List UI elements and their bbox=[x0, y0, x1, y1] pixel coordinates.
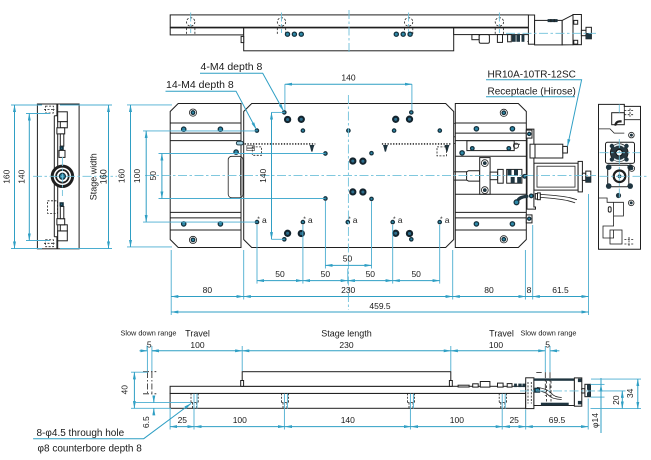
left side view bottom mechanism bbox=[48, 201, 68, 241]
svg-text:a: a bbox=[398, 215, 403, 225]
svg-text:100: 100 bbox=[233, 415, 247, 425]
plan left counterbore screws bbox=[189, 109, 196, 243]
right side view connector boss bbox=[612, 109, 634, 126]
left side view top mechanism bbox=[57, 112, 67, 158]
plan right block pocket bbox=[455, 156, 526, 194]
top view motor shaft bbox=[581, 30, 586, 35]
bottom view phantom stage bbox=[143, 372, 156, 394]
right side view top screw bbox=[629, 132, 635, 138]
plan a-hole star marks bbox=[257, 216, 443, 223]
dim 140 side view bbox=[17, 114, 51, 241]
right side view shaft flange bbox=[606, 164, 633, 189]
svg-text:Stage length: Stage length bbox=[321, 329, 372, 339]
svg-text:40: 40 bbox=[120, 385, 130, 395]
plan centerline horizontal bbox=[145, 175, 596, 177]
svg-text:100: 100 bbox=[450, 415, 464, 425]
plan sensor dotted strip right bbox=[382, 143, 451, 145]
plan right rail holes bbox=[474, 127, 514, 226]
right side view inner edge bbox=[624, 104, 640, 119]
svg-text:230: 230 bbox=[339, 340, 353, 350]
svg-text:6.5: 6.5 bbox=[141, 416, 151, 428]
top view base bar bbox=[170, 15, 529, 28]
right side view step profile bbox=[599, 129, 625, 133]
plan sensor left component bbox=[247, 146, 262, 156]
svg-text:80: 80 bbox=[203, 285, 213, 295]
top view right rail section bbox=[454, 28, 531, 44]
right side view fan circle bbox=[610, 144, 629, 162]
svg-text:20: 20 bbox=[611, 395, 621, 405]
plan left rail holes bbox=[182, 127, 223, 226]
dim 160 side view bbox=[2, 105, 43, 249]
bottom view sensor pieces bbox=[458, 382, 526, 388]
top view stage block bbox=[241, 28, 454, 51]
svg-text:160: 160 bbox=[117, 169, 127, 183]
svg-text:Slow down range: Slow down range bbox=[521, 329, 577, 338]
bottom view motor rear plate bbox=[574, 378, 581, 406]
plan right base block bbox=[455, 104, 526, 248]
top view left lip plate bbox=[170, 28, 244, 35]
left side view outer body bbox=[37, 104, 79, 249]
svg-text:Stage width: Stage width bbox=[89, 153, 99, 200]
plan lead screw shaft bbox=[454, 171, 480, 181]
right side view fan plate bbox=[606, 142, 635, 163]
svg-text:50: 50 bbox=[148, 171, 158, 181]
plan sensor dotted strip left bbox=[245, 143, 316, 145]
bottom view motor bracket bbox=[526, 378, 534, 409]
svg-text:a: a bbox=[445, 215, 450, 225]
bottom view mounting holes dashed bbox=[191, 393, 506, 408]
bottom view motor shaft bbox=[582, 389, 585, 393]
svg-text:50: 50 bbox=[321, 269, 331, 279]
svg-text:5: 5 bbox=[545, 340, 550, 350]
bottom view rail plate bbox=[170, 386, 526, 393]
top view hole dots bbox=[285, 32, 412, 36]
dim phi14 bbox=[590, 378, 605, 433]
svg-text:*: * bbox=[257, 216, 260, 223]
svg-text:50: 50 bbox=[343, 254, 353, 264]
svg-text:φ8 counterbore depth 8: φ8 counterbore depth 8 bbox=[38, 444, 143, 455]
bottom view motor centerline bbox=[520, 390, 600, 392]
plan bearing housing bbox=[480, 158, 490, 195]
right side view centerlines bbox=[600, 104, 649, 200]
top view knob bbox=[586, 27, 591, 39]
svg-text:140: 140 bbox=[258, 168, 268, 182]
dim row 80 230 80 8 61.5 bbox=[171, 194, 588, 315]
svg-text:Slow down range: Slow down range bbox=[121, 329, 177, 338]
leader 14-M4 bbox=[166, 79, 257, 129]
svg-text:8-φ4.5 through hole: 8-φ4.5 through hole bbox=[37, 428, 125, 439]
dim 34 bbox=[591, 379, 642, 409]
top view motor bracket bbox=[528, 15, 534, 44]
dim 50 center top bbox=[325, 201, 371, 269]
plan bracket tab bbox=[526, 130, 532, 223]
dim 40 bbox=[120, 372, 172, 408]
svg-text:5: 5 bbox=[147, 340, 152, 350]
dim stage width 160 bbox=[60, 105, 112, 249]
right side view lower screws bbox=[616, 166, 635, 206]
dim 100 plan bbox=[132, 131, 256, 222]
left side view bearing circles bbox=[52, 166, 72, 186]
right side view outline bbox=[599, 104, 641, 249]
svg-text:25: 25 bbox=[509, 415, 519, 425]
bottom view motor body bbox=[534, 378, 575, 405]
dim 140 plan vertical bbox=[258, 112, 284, 239]
right side view lower bracket bbox=[599, 198, 635, 246]
bottom view phantom right bbox=[536, 372, 550, 396]
svg-text:a: a bbox=[262, 215, 267, 225]
svg-text:160: 160 bbox=[98, 169, 108, 184]
plan motor body bbox=[534, 161, 582, 192]
top view motor centerline bbox=[506, 32, 596, 34]
top view motor taper bbox=[562, 15, 573, 45]
svg-text:100: 100 bbox=[132, 169, 142, 183]
plan stage edge ticks bbox=[454, 123, 456, 143]
plan stage corner M4 holes bbox=[283, 111, 413, 241]
bottom view knob bbox=[585, 384, 591, 396]
leader 4-M4 bbox=[200, 61, 284, 111]
left side view bottom dashed screw bbox=[44, 240, 55, 247]
dim 160 plan bbox=[117, 105, 173, 247]
dim 20 bbox=[600, 391, 626, 409]
top view dashed clamp screws bbox=[187, 18, 504, 35]
leader through hole bbox=[33, 404, 191, 455]
svg-text:50: 50 bbox=[366, 269, 376, 279]
svg-text:160: 160 bbox=[2, 169, 12, 183]
plan motor knob bbox=[586, 171, 591, 182]
plan motor mount plate bbox=[460, 141, 520, 155]
plan right counterbore screws bbox=[500, 109, 507, 243]
svg-text:*: * bbox=[393, 216, 396, 223]
plan stage counterbore holes bbox=[285, 117, 412, 236]
plan slot near left edge bbox=[234, 141, 243, 154]
plan sensor right components bbox=[383, 145, 450, 156]
svg-text:100: 100 bbox=[190, 340, 204, 350]
svg-text:φ14: φ14 bbox=[590, 413, 600, 428]
plan motor cable bbox=[514, 193, 577, 205]
svg-text:a: a bbox=[308, 215, 313, 225]
svg-text:140: 140 bbox=[341, 73, 355, 83]
plan a-hole labels bbox=[262, 215, 450, 225]
svg-text:4-M4 depth 8: 4-M4 depth 8 bbox=[201, 61, 263, 73]
svg-text:HR10A-10TR-12SC: HR10A-10TR-12SC bbox=[488, 69, 576, 80]
svg-text:459.5: 459.5 bbox=[369, 301, 391, 311]
plan motor shaft bbox=[582, 173, 585, 180]
dim 140 plan horizontal bbox=[285, 73, 412, 111]
bottom top dim row bbox=[121, 329, 577, 373]
plan stage plate bbox=[244, 104, 454, 248]
top view mid centerline bbox=[348, 10, 350, 53]
svg-text:Receptacle (Hirose): Receptacle (Hirose) bbox=[488, 87, 576, 98]
bottom view base plate bbox=[170, 393, 526, 408]
svg-text:34: 34 bbox=[625, 388, 635, 398]
dim 459.5 bbox=[171, 301, 588, 312]
bottom view bracket dashes bbox=[528, 382, 531, 404]
left side view stage plate edge bbox=[54, 104, 57, 249]
plan motor bracket column bbox=[527, 129, 536, 209]
dim 50x4 row bbox=[257, 225, 440, 284]
svg-text:80: 80 bbox=[484, 285, 494, 295]
top view motor body bbox=[535, 19, 563, 45]
plan coupling bbox=[490, 169, 526, 183]
top view screw centerlines bbox=[191, 13, 500, 34]
plan connector box bbox=[530, 144, 567, 158]
plan left base block bbox=[170, 104, 241, 248]
svg-text:Travel: Travel bbox=[185, 329, 210, 339]
svg-text:100: 100 bbox=[489, 340, 503, 350]
svg-text:14-M4 depth 8: 14-M4 depth 8 bbox=[166, 79, 234, 91]
svg-text:*: * bbox=[303, 216, 306, 223]
svg-text:50: 50 bbox=[411, 269, 421, 279]
svg-text:140: 140 bbox=[341, 415, 355, 425]
label HR10A bbox=[486, 69, 582, 146]
svg-text:230: 230 bbox=[341, 285, 355, 295]
left side view centerlines bbox=[33, 175, 117, 177]
bottom view stage block bbox=[241, 372, 453, 387]
svg-text:61.5: 61.5 bbox=[552, 285, 569, 295]
svg-text:25: 25 bbox=[178, 415, 188, 425]
left side view top dashed screw bbox=[44, 106, 55, 113]
plan left end cutout bbox=[228, 156, 243, 198]
svg-text:a: a bbox=[353, 215, 358, 225]
dim 6.5 bbox=[134, 396, 191, 428]
svg-text:Travel: Travel bbox=[489, 329, 514, 339]
svg-text:8: 8 bbox=[527, 285, 532, 295]
svg-text:50: 50 bbox=[275, 269, 285, 279]
bottom view motor cable bbox=[537, 387, 562, 399]
plan sensor mid component bbox=[310, 145, 315, 152]
plan-to-bottom link lines bbox=[146, 346, 148, 351]
bottom dim row bbox=[170, 399, 588, 430]
plan stage M4 holes grid bbox=[255, 129, 441, 224]
plan centerline vertical bbox=[347, 95, 349, 310]
top view motor rear plate bbox=[573, 15, 581, 45]
svg-text:*: * bbox=[440, 216, 443, 223]
svg-text:69.5: 69.5 bbox=[549, 415, 566, 425]
svg-text:140: 140 bbox=[17, 169, 27, 183]
bottom hole extension pairs bbox=[194, 394, 505, 430]
dim 50 plan bbox=[148, 154, 325, 199]
